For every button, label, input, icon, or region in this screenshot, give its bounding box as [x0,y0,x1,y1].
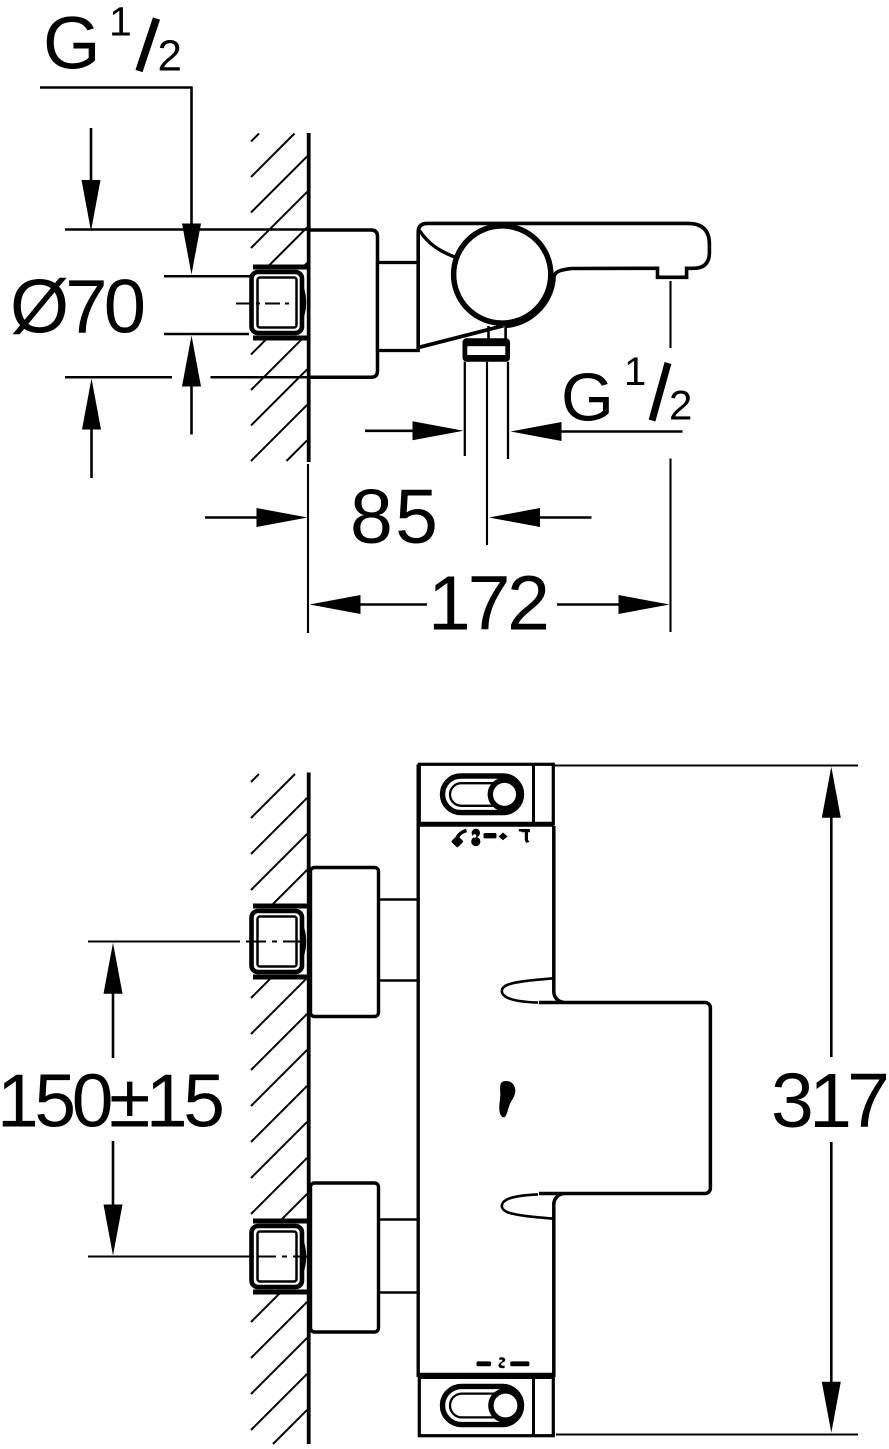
172 dim left arrow [310,595,361,614]
svg-text:2: 2 [158,32,182,81]
escutcheon bottom extension line (gap for arrow) [65,376,172,379]
wall flange lines [253,1219,310,1224]
volume knob pill [443,1386,522,1424]
nut chamfer arc [297,276,305,330]
spout outlet drip extension line [669,281,671,348]
leader line under G 1/2 [40,86,193,89]
temp knob pill [443,776,522,813]
mixer body outline [418,223,709,350]
svg-text:G: G [43,2,101,85]
172 dim right arrow [557,603,620,606]
logo drop mark [499,1081,515,1117]
arrow up to nut bottom [182,336,201,387]
317 dim arrows [822,767,841,818]
317 extension line top [552,764,858,766]
nut chamfer arc [297,915,305,969]
hatch clearing behind upper union nut [243,904,308,980]
pictogram row below temp knob [451,829,530,848]
317 extension line bottom [556,1433,858,1435]
shower outlet pipe [464,362,466,456]
hatch clearing behind lower union nut [243,1219,308,1295]
hatch clearing behind union nut [243,265,308,341]
neck upper [379,898,419,901]
svg-text:172: 172 [428,561,550,647]
arrow down to escutcheon top [90,128,93,184]
neck lower [379,1218,419,1221]
escutcheon top extension line [65,228,308,231]
body bottom slope [417,326,503,348]
nut bottom extension line [164,333,249,336]
thermostat body right side with spout block [539,826,710,1377]
spout top fillet curve [502,978,554,1002]
wall flange lines [253,265,310,270]
arrow down to nut top [182,224,201,275]
pictogram row above volume knob [477,1357,530,1368]
wall hatching (bottom view) [251,774,307,1444]
svg-text:1: 1 [624,350,646,394]
svg-text:150±15: 150±15 [0,1059,225,1143]
shank between escutcheon and body [378,263,419,351]
svg-text:Ø70: Ø70 [10,265,146,350]
escutcheon flange (side) [311,230,378,377]
nut centerline [236,303,294,305]
wall extension line below [307,464,309,633]
wall flange lines [253,904,310,909]
nut top extension line [164,275,252,278]
shower outlet neck [487,326,490,340]
spout bottom fillet curve [502,1194,554,1218]
arrow up to escutcheon bottom [82,379,101,430]
cap transition curve [420,231,460,259]
wall face line (bottom view) [307,773,311,1445]
85 dim right arrow [489,508,540,527]
85 dim left arrow [205,516,258,519]
nut chamfer arc [297,1230,305,1284]
svg-text:1: 1 [109,0,132,45]
svg-text:2: 2 [669,382,692,429]
thermostat body left edge [417,765,420,1378]
temperature knob box (top) [419,764,553,824]
eccentric mounting block upper [311,868,379,1017]
nut body [252,1226,303,1287]
center extension line [486,362,488,545]
wall hatching (top view) [251,134,307,462]
pipe dim left arrow [365,429,414,432]
nut body [252,272,303,333]
cartridge circle [454,226,551,323]
150 dim arrows [104,943,123,994]
pipe dim right arrow + leader [511,422,562,441]
svg-text:317: 317 [771,1058,889,1144]
svg-text:G: G [561,360,614,436]
volume knob box (bottom) [419,1377,553,1435]
150 extension line upper (centerline) [88,940,240,942]
eccentric mounting block lower [311,1183,379,1332]
wall face line (top view) [307,133,311,462]
150 extension line lower (centerline) [88,1255,254,1257]
shower outlet collar [463,338,511,361]
nut body [252,911,303,972]
